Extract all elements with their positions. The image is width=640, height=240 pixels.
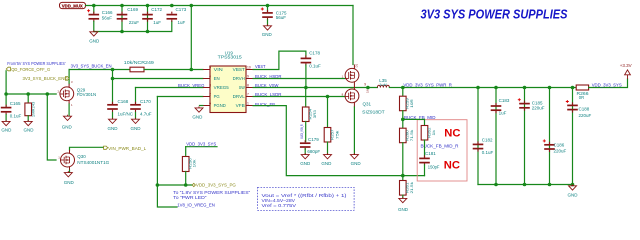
svg-text:PGND: PGND: [214, 103, 227, 108]
capacitor C188: [566, 100, 592, 118]
wire DRVL to gate: [253, 96, 345, 98]
capacitor C175: [261, 8, 287, 21]
ground below C165: [1, 120, 12, 133]
wire VDD_3V3_SYS stub: [186, 147, 217, 157]
capacitor C182: [473, 138, 494, 155]
svg-text:9: 9: [247, 75, 249, 79]
wire L35 to output: [389, 87, 402, 89]
label BUCK_FB_MID: [404, 115, 436, 121]
transistor Q31 low side: [342, 89, 385, 114]
svg-text:VBST: VBST: [233, 67, 245, 72]
svg-text:SW: SW: [239, 85, 246, 90]
resistor R243: [25, 101, 36, 117]
label BUCK_FB: [255, 102, 275, 108]
wire BUCK_FB_MID to R262: [403, 119, 425, 125]
resistor R259: [400, 96, 414, 111]
ground below R261: [398, 197, 409, 212]
svg-text:C173: C173: [176, 7, 187, 12]
svg-text:22uF: 22uF: [129, 20, 140, 25]
wire C181 to FB node: [424, 165, 426, 176]
wire Q31 source to gnd: [353, 107, 355, 154]
ground below Q30: [64, 171, 75, 185]
wire VBST to C178: [253, 51, 306, 69]
node BUCK_FB_MID junction: [401, 118, 405, 122]
svg-text:3V3_SYS_BUCK_END: 3V3_SYS_BUCK_END: [23, 76, 69, 81]
svg-text:BUCK_VSW_R: BUCK_VSW_R: [300, 124, 304, 138]
label VDD_3V3_SYS_PWR_R: [403, 83, 452, 89]
svg-text:C172: C172: [151, 7, 162, 12]
resistor R256: [182, 157, 196, 172]
svg-text:220uF: 220uF: [579, 113, 592, 118]
node gate rail junctions: [4, 92, 49, 96]
wire rail to FET drain: [352, 6, 354, 65]
svg-text:3: 3: [209, 84, 211, 88]
ground below PGND: [192, 106, 203, 119]
svg-text:C179: C179: [308, 137, 319, 142]
svg-text:71.5k: 71.5k: [409, 130, 414, 142]
ground below Q31: [350, 153, 361, 166]
svg-text:9: 9: [364, 83, 366, 87]
wire C185 column: [524, 88, 526, 185]
label 1V8_IO_VREG_EN: [177, 202, 215, 208]
ground below C170: [131, 118, 142, 131]
wire C188 column: [572, 88, 574, 185]
label BUCK_LSDR: [255, 92, 282, 98]
wire R259 to R260: [402, 111, 404, 129]
svg-text:NTS4001NT1G: NTS4001NT1G: [77, 160, 110, 165]
svg-text:0.1uF: 0.1uF: [309, 64, 321, 69]
svg-text:C181: C181: [425, 151, 436, 156]
svg-text:NC: NC: [444, 128, 460, 140]
svg-text:C170: C170: [140, 99, 151, 104]
node PG junctions: [156, 183, 188, 187]
svg-text:4.7uF: 4.7uF: [140, 112, 152, 117]
transistor Q30: [58, 153, 110, 167]
svg-text:GND: GND: [351, 161, 362, 166]
svg-text:680pF: 680pF: [307, 149, 320, 154]
wire EN pullup left: [69, 69, 130, 71]
svg-text:VDD_3V3_SYS: VDD_3V3_SYS: [592, 83, 622, 89]
resistor R257: [324, 128, 340, 143]
svg-text:VDD_MUX: VDD_MUX: [62, 3, 84, 9]
svg-text:1uF: 1uF: [153, 20, 161, 25]
wire gate rail: [6, 93, 56, 95]
text NC C181: [444, 159, 460, 171]
wire output rail: [403, 87, 576, 89]
resistor R254: [302, 107, 316, 122]
wire R243 drop: [27, 94, 29, 103]
resistor R249: [130, 67, 144, 72]
svg-text:GND: GND: [1, 128, 12, 133]
transistor Q29: [58, 80, 97, 107]
wire R243 to gnd: [27, 116, 29, 121]
svg-text:PG: PG: [214, 94, 220, 99]
svg-text:8: 8: [247, 84, 249, 88]
wire C166 drop: [93, 6, 95, 14]
wire Q30 source down: [69, 167, 71, 173]
svg-text:VDD_3V3_SYS: VDD_3V3_SYS: [186, 142, 216, 148]
wire C168 to gnd: [112, 112, 114, 118]
svg-text:VREG5: VREG5: [214, 85, 230, 90]
wire bottom gnd rail: [478, 184, 573, 186]
svg-text:BUCK_LSDR: BUCK_LSDR: [255, 92, 282, 98]
svg-text:VFB: VFB: [236, 103, 245, 108]
capacitor C173: [167, 7, 187, 25]
svg-text:0.1uF: 0.1uF: [10, 113, 22, 118]
wire SW node: [253, 87, 377, 89]
wire R262 to C181: [424, 140, 426, 157]
transistor Q31 high side: [342, 63, 359, 82]
svg-text:Q30: Q30: [77, 154, 86, 159]
svg-text:GND: GND: [131, 126, 142, 131]
wire C182 column: [477, 88, 479, 185]
capacitor C170: [130, 99, 152, 116]
pins U19: [203, 66, 253, 108]
wire DRVL to R257: [327, 97, 329, 128]
svg-text:EN: EN: [214, 76, 220, 81]
svg-text:1uH: 1uH: [379, 82, 386, 87]
ground below Q29: [62, 115, 73, 130]
wire VREG5 pin: [136, 87, 203, 89]
svg-text:C185: C185: [532, 100, 543, 105]
wire C165 to gnd: [5, 115, 7, 121]
wire DRVH to gate: [253, 78, 345, 80]
resistor R262: [421, 126, 436, 141]
svg-text:BUCK_FB: BUCK_FB: [255, 102, 275, 108]
capacitor C183: [491, 98, 510, 115]
svg-text:Q31: Q31: [363, 102, 372, 107]
svg-text:1k: 1k: [431, 130, 436, 136]
ground below C175: [262, 24, 273, 37]
inductor L35: [377, 78, 389, 87]
svg-text:BUCK_HSDR: BUCK_HSDR: [255, 74, 282, 80]
node EN junctions: [111, 68, 193, 81]
svg-text:C168: C168: [118, 99, 129, 104]
node bottom rail junctions: [494, 183, 574, 187]
capacitor C181: [419, 151, 440, 169]
wire C175 drop: [267, 6, 269, 12]
svg-text:220uF: 220uF: [532, 106, 545, 111]
svg-text:10k/NCR249: 10k/NCR249: [124, 60, 155, 65]
svg-text:TPS53015: TPS53015: [218, 55, 243, 60]
svg-text:10R: 10R: [409, 99, 414, 108]
svg-text:GND: GND: [398, 207, 409, 212]
wire PG vertical: [156, 97, 158, 186]
svg-text:C169: C169: [127, 7, 138, 12]
svg-text:C183: C183: [499, 98, 510, 103]
svg-text:+3.3V: +3.3V: [620, 63, 632, 68]
svg-text:C188: C188: [579, 106, 590, 111]
capacitor C165: [1, 101, 22, 118]
svg-text:BUCK_VSW: BUCK_VSW: [255, 83, 279, 89]
svg-text:FDV301N: FDV301N: [77, 92, 97, 97]
label R249 value: [124, 60, 155, 65]
wire VFB feedback: [253, 106, 424, 176]
note to 1.8V supplies: [173, 190, 251, 195]
label VDD_3V3_SYS out: [592, 83, 622, 89]
wire EN pin: [113, 78, 203, 80]
svg-text:C182: C182: [482, 138, 493, 143]
svg-text:4: 4: [209, 75, 211, 79]
label BUCK_VSW_R rotated: [300, 124, 304, 138]
svg-text:From’5V SYS POWER SUPPLIES’: From’5V SYS POWER SUPPLIES’: [7, 61, 66, 66]
svg-text:BUCK_FB_MID_R: BUCK_FB_MID_R: [421, 144, 460, 150]
hierarchical label VIN_PWR_BAD_L: [104, 146, 147, 151]
wire VREG vertical: [135, 88, 137, 104]
svg-text:1uF/NC: 1uF/NC: [118, 112, 134, 117]
wire C170 to gnd: [135, 112, 137, 118]
svg-text:7: 7: [247, 93, 249, 97]
svg-text:150pF: 150pF: [428, 164, 440, 169]
text NC R262: [444, 128, 460, 140]
svg-text:1uF: 1uF: [178, 20, 186, 25]
wire VDD_MUX rail: [86, 5, 354, 7]
wire C169 drop: [121, 6, 123, 32]
svg-text:GND: GND: [262, 32, 273, 37]
svg-text:3R3: 3R3: [312, 109, 317, 118]
capacitor C166: [87, 9, 113, 22]
svg-text:GND: GND: [24, 128, 35, 133]
label BUCK_VSW: [255, 83, 279, 89]
svg-text:2: 2: [209, 93, 211, 97]
hierarchical label VDD_3V3_SYS_PG: [192, 183, 236, 188]
svg-text:3V3 SYS POWER SUPPLIES: 3V3 SYS POWER SUPPLIES: [421, 6, 568, 21]
svg-text:56uF: 56uF: [276, 15, 287, 20]
wire PGND to gnd: [200, 105, 203, 107]
svg-text:GND: GND: [321, 161, 332, 166]
wire Q29 source down: [68, 91, 70, 116]
power symbol +3.3V: [620, 63, 632, 79]
svg-text:5,6: 5,6: [366, 89, 370, 93]
wire R260 to FB node: [402, 143, 404, 181]
svg-text:SIZ918DT: SIZ918DT: [362, 109, 385, 114]
op-amp U19 TPS53015: [210, 50, 246, 112]
svg-text:3V3_SYS_BUCK_EN: 3V3_SYS_BUCK_EN: [71, 63, 113, 69]
power label VDD_MUX: [60, 2, 86, 9]
wire PG to EN label: [157, 185, 177, 207]
capacitor C185: [518, 98, 545, 111]
note from 5V supplies: [7, 61, 66, 66]
ground below C166: [89, 30, 100, 43]
svg-text:1: 1: [247, 102, 249, 106]
capacitor C179: [300, 137, 321, 154]
wire R256 to PG: [185, 172, 187, 186]
hierarchical label QD_FORCE_OFF_G: [6, 67, 50, 72]
svg-text:220uF: 220uF: [554, 148, 567, 153]
wire PG bottom: [157, 184, 192, 186]
svg-text:6: 6: [209, 102, 211, 106]
node FB junction: [401, 174, 405, 178]
svg-text:QD_FORCE_OFF_G: QD_FORCE_OFF_G: [11, 67, 50, 72]
wire C175 to gnd: [267, 20, 269, 26]
label VBST: [255, 64, 266, 70]
label 3V3_SYS_BUCK_EN: [71, 63, 113, 69]
wire cap bottom rail: [94, 22, 172, 32]
node output rail junctions: [401, 86, 574, 90]
label VDD_3V3_SYS pullup: [186, 142, 216, 148]
svg-text:GND: GND: [89, 39, 100, 44]
ground below C179: [300, 153, 311, 166]
svg-text:1uF: 1uF: [499, 110, 507, 115]
note box: [258, 187, 355, 210]
wire EN vertical: [112, 70, 114, 104]
wire VDD_MUX to VIN: [190, 6, 192, 70]
wire C183 column: [495, 88, 497, 185]
svg-text:C165: C165: [10, 101, 21, 106]
ground below R257: [321, 153, 332, 166]
svg-text:DRVH: DRVH: [233, 76, 245, 81]
svg-text:C178: C178: [309, 51, 320, 56]
svg-text:VDD_3V3_SYS_PG: VDD_3V3_SYS_PG: [196, 183, 236, 188]
svg-text:VIN_PWR_BAD_L: VIN_PWR_BAD_L: [108, 146, 147, 151]
note to PWR LED: [173, 195, 207, 200]
label BUCK_HSDR: [255, 74, 282, 80]
svg-text:DRVL: DRVL: [233, 94, 246, 99]
wire R257 to gnd: [327, 142, 329, 154]
ground below C168: [108, 118, 119, 131]
svg-text:5: 5: [209, 66, 211, 70]
capacitor C178: [301, 51, 321, 69]
svg-text:0.1uF: 0.1uF: [482, 150, 494, 155]
svg-text:1MR243: 1MR243: [31, 101, 36, 117]
capacitor C169: [117, 7, 140, 25]
svg-text:VIN: VIN: [214, 67, 223, 72]
node bottom rail junctions: [120, 30, 149, 34]
svg-text:Vref = 0.775V: Vref = 0.775V: [262, 203, 297, 208]
svg-text:GND: GND: [300, 161, 311, 166]
title text: [421, 6, 568, 21]
svg-text:GND: GND: [108, 126, 119, 131]
svg-text:C166: C166: [102, 10, 113, 15]
wire Q30 drain: [70, 147, 104, 153]
wire C179 to gnd: [304, 149, 306, 154]
svg-text:10: 10: [247, 66, 251, 70]
svg-text:GND: GND: [62, 124, 73, 129]
resistor R261: [400, 181, 415, 196]
wire R254 to C179: [305, 122, 307, 142]
ground output rail: [568, 184, 579, 197]
wire gate rail to Q30: [47, 94, 56, 160]
ground below R243: [24, 120, 35, 133]
svg-text:1V8_IO_VREG_EN: 1V8_IO_VREG_EN: [177, 202, 215, 208]
wire C172 drop: [147, 6, 149, 32]
wire rail to R259: [402, 88, 404, 97]
capacitor C186: [543, 139, 567, 153]
svg-text:21.5k: 21.5k: [409, 182, 414, 194]
svg-text:GND: GND: [568, 193, 579, 198]
wire R261 to gnd: [402, 195, 404, 198]
label BUCK_VREG: [178, 83, 205, 89]
resistor R260: [400, 128, 415, 143]
capacitor C168: [107, 99, 134, 116]
node rail junctions: [92, 4, 269, 8]
wire QD_FORCE_OFF_G to gate rail: [5, 71, 7, 94]
svg-text:GND: GND: [192, 115, 203, 120]
wire C178 to SW: [305, 65, 307, 88]
svg-text:75k: 75k: [335, 131, 340, 140]
DNP frame: [417, 120, 467, 181]
svg-text:10k: 10k: [192, 160, 197, 168]
resistor R266: [576, 85, 589, 100]
svg-text:C186: C186: [554, 143, 565, 148]
wire R266 to power: [589, 79, 628, 88]
node SW junctions: [304, 86, 370, 90]
svg-text:56uF: 56uF: [102, 16, 113, 21]
wire PG pin: [157, 96, 203, 98]
svg-text:0R: 0R: [579, 95, 584, 100]
wire Q29 drain up: [68, 70, 70, 88]
svg-text:To “PWR LED”: To “PWR LED”: [173, 195, 207, 200]
node DRVL junction: [326, 95, 330, 99]
capacitor C172: [142, 7, 162, 25]
hierarchical label 3V3_SYS_BUCK_END: [23, 76, 70, 81]
wire R249 to VIN pin: [144, 69, 203, 71]
wire C186 column: [549, 88, 551, 185]
wire C165 drop: [5, 94, 7, 106]
pin stubs Q31: [354, 65, 369, 108]
label BUCK_FB_MID_R: [421, 144, 460, 150]
svg-text:GND: GND: [64, 180, 75, 185]
svg-text:NC: NC: [444, 159, 460, 171]
wire SW to R254: [305, 88, 307, 108]
